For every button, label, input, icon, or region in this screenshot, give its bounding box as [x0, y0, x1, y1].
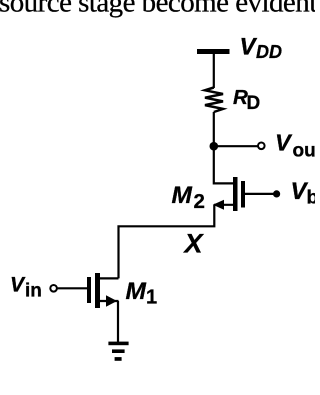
- svg-text:b: b: [307, 186, 316, 208]
- svg-text:DD: DD: [256, 42, 282, 62]
- wire VDD to resistor: [213, 53, 215, 88]
- svg-text:source stage become evident: source stage become evident: [0, 0, 315, 19]
- wire M1 gate to Vin: [58, 287, 88, 289]
- label RD: [233, 86, 260, 114]
- power VDD bar: [197, 49, 230, 54]
- wire to Vout terminal: [214, 145, 258, 147]
- svg-text:1: 1: [146, 287, 157, 309]
- Vout open terminal: [258, 143, 265, 150]
- svg-text:out: out: [293, 141, 316, 162]
- svg-text:V: V: [240, 34, 258, 61]
- junction node dot: [210, 142, 219, 151]
- wire M2 source to node X to M1 drain: [119, 205, 215, 279]
- label Vout: [275, 130, 320, 162]
- resistor RD: [205, 88, 223, 113]
- svg-text:V: V: [10, 273, 26, 296]
- svg-text:M: M: [126, 278, 147, 305]
- Vin open terminal: [50, 285, 57, 292]
- svg-text:V: V: [275, 130, 293, 156]
- transistor M1: [87, 273, 119, 308]
- label VDD: [240, 34, 283, 63]
- transistor M2: [213, 177, 245, 211]
- ground: [108, 342, 128, 361]
- label Vb: [291, 178, 319, 208]
- svg-text:in: in: [25, 280, 42, 301]
- Vb terminal dot: [273, 190, 280, 197]
- svg-text:D: D: [247, 93, 261, 114]
- label M2: [172, 182, 205, 213]
- wire M1 source to ground: [117, 301, 119, 343]
- label M1: [126, 278, 158, 309]
- wire resistor to M2 drain: [213, 112, 215, 185]
- label Vin: [10, 273, 42, 301]
- svg-text:M: M: [172, 182, 193, 209]
- svg-text:X: X: [183, 229, 205, 259]
- wire M2 gate to Vb: [245, 193, 274, 195]
- svg-text:2: 2: [194, 190, 205, 213]
